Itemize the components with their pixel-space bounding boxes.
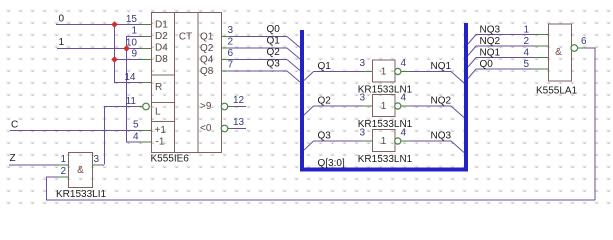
svg-text:2: 2	[524, 36, 530, 47]
svg-text:4: 4	[524, 48, 530, 59]
svg-text:1: 1	[524, 25, 530, 36]
svg-text:15: 15	[126, 14, 138, 25]
svg-text:D4: D4	[155, 43, 168, 54]
svg-text:0: 0	[59, 14, 65, 25]
svg-text:+1: +1	[155, 125, 167, 136]
svg-text:1: 1	[381, 101, 387, 112]
svg-text:11: 11	[126, 96, 137, 107]
svg-text:5: 5	[524, 59, 530, 70]
svg-text:NQ2: NQ2	[480, 36, 501, 47]
svg-text:12: 12	[233, 95, 245, 106]
svg-text:KR1533LI1: KR1533LI1	[56, 189, 106, 200]
svg-text:Q0: Q0	[267, 24, 281, 35]
svg-text:Q2: Q2	[267, 47, 281, 58]
svg-text:Q3: Q3	[267, 59, 281, 70]
svg-text:Q1: Q1	[267, 36, 281, 47]
svg-text:D2: D2	[155, 31, 168, 42]
svg-text:Q3: Q3	[318, 131, 332, 142]
svg-text:L: L	[155, 107, 161, 118]
svg-text:1: 1	[381, 136, 387, 147]
svg-text:Q0: Q0	[480, 59, 494, 70]
svg-text:4: 4	[401, 128, 407, 139]
svg-text:NQ1: NQ1	[480, 48, 501, 59]
svg-text:&: &	[77, 165, 84, 176]
svg-text:Q2: Q2	[200, 43, 214, 54]
svg-text:KR1533LN1: KR1533LN1	[358, 154, 413, 165]
svg-text:-1: -1	[156, 137, 165, 148]
svg-text:K555LA1: K555LA1	[536, 86, 578, 97]
svg-text:10: 10	[126, 38, 138, 49]
svg-text:CT: CT	[179, 32, 192, 43]
svg-text:4: 4	[133, 132, 139, 143]
svg-text:13: 13	[233, 117, 245, 128]
svg-text:3: 3	[94, 154, 100, 165]
svg-text:D8: D8	[155, 54, 168, 65]
svg-text:1: 1	[381, 67, 387, 78]
svg-text:Q1: Q1	[318, 61, 332, 72]
svg-text:R: R	[155, 82, 162, 93]
svg-text:3: 3	[359, 58, 365, 69]
svg-text:Q4: Q4	[200, 55, 214, 66]
svg-text:2: 2	[60, 166, 66, 177]
svg-text:Q2: Q2	[318, 96, 332, 107]
svg-text:2: 2	[228, 37, 234, 48]
svg-text:Z: Z	[10, 153, 16, 164]
svg-text:>9: >9	[200, 101, 212, 112]
svg-text:NQ2: NQ2	[431, 96, 452, 107]
svg-text:7: 7	[228, 60, 234, 71]
svg-text:<0: <0	[200, 123, 212, 134]
svg-text:D1: D1	[155, 20, 168, 31]
svg-text:3: 3	[228, 25, 234, 36]
svg-text:14: 14	[124, 72, 136, 83]
svg-text:1: 1	[59, 37, 65, 48]
svg-text:NQ1: NQ1	[431, 61, 452, 72]
svg-text:Q8: Q8	[200, 66, 214, 77]
svg-text:6: 6	[581, 36, 587, 47]
svg-text:C: C	[11, 120, 18, 131]
svg-text:3: 3	[359, 93, 365, 104]
svg-text:Q1: Q1	[200, 32, 214, 43]
svg-text:&: &	[555, 47, 562, 58]
svg-text:5: 5	[133, 120, 139, 131]
svg-text:3: 3	[359, 128, 365, 139]
svg-text:4: 4	[401, 93, 407, 104]
svg-text:4: 4	[401, 58, 407, 69]
svg-text:6: 6	[228, 48, 234, 59]
svg-text:NQ3: NQ3	[431, 131, 452, 142]
svg-text:1: 1	[131, 26, 137, 37]
svg-text:9: 9	[131, 49, 137, 60]
svg-text:Q[3:0]: Q[3:0]	[318, 158, 345, 169]
svg-text:NQ3: NQ3	[480, 25, 501, 36]
svg-text:1: 1	[60, 154, 66, 165]
svg-text:K555IE6: K555IE6	[151, 154, 190, 165]
